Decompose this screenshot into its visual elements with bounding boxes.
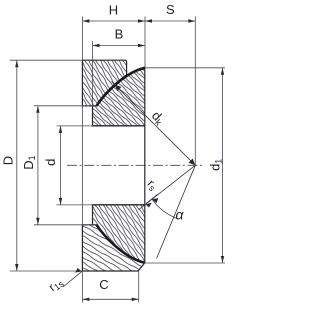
ext H right / B right / S left vertical — [144, 17, 146, 68]
housing washer bottom section — [82, 225, 144, 271]
dimension d1 line — [221, 68, 224, 263]
svg-text:B: B — [115, 27, 124, 42]
ext d1 bottom horizontal — [144, 262, 226, 264]
sphere contact arc bottom (thick) — [97, 225, 145, 263]
shaft washer top section — [93, 68, 145, 126]
dimension D1 line — [36, 106, 39, 225]
svg-text:D: D — [1, 156, 16, 165]
dimension B line — [93, 44, 146, 47]
ext d top horizontal — [57, 125, 93, 127]
rs leader arrow — [145, 194, 157, 207]
dimension H line — [82, 19, 145, 22]
svg-text:S: S — [166, 2, 175, 17]
ext D1 top horizontal — [34, 105, 97, 107]
svg-text:C: C — [99, 277, 108, 292]
ext D bottom horizontal — [10, 270, 83, 272]
alpha angle arc with arrow — [152, 198, 177, 218]
dimension D line — [15, 60, 18, 271]
shaft washer bottom section — [93, 205, 145, 263]
ext d bottom horizontal — [57, 204, 93, 206]
ext H left / C left vertical — [81, 17, 83, 61]
svg-text:α: α — [176, 207, 185, 223]
svg-text:r1s: r1s — [46, 274, 66, 294]
ext D top horizontal — [10, 59, 83, 61]
sphere contact arc top (thick) — [97, 68, 145, 106]
svg-text:dk: dk — [148, 108, 168, 128]
ext D1 bottom horizontal — [34, 224, 97, 226]
dimension d line — [59, 126, 62, 205]
dimension C line — [82, 298, 138, 301]
svg-text:rs: rs — [144, 177, 161, 194]
alpha angle line B — [157, 165, 196, 258]
alpha angle line A (to bore corner) — [139, 165, 196, 210]
ext B left vertical — [92, 41, 94, 106]
svg-text:d: d — [43, 159, 58, 166]
svg-text:d1: d1 — [207, 159, 223, 171]
dk diameter leader line — [112, 82, 196, 166]
svg-text:H: H — [109, 3, 118, 18]
bore rectangle outline — [93, 126, 145, 205]
ext C right vertical — [138, 271, 140, 303]
ext d1 top horizontal — [145, 67, 225, 69]
dimension S line — [145, 19, 195, 22]
housing washer top section — [82, 60, 126, 106]
svg-text:D1: D1 — [21, 155, 37, 169]
centerline axis — [67, 164, 202, 166]
r1s leader arrow — [63, 268, 82, 287]
ext S right vertical to sphere centre — [194, 17, 196, 166]
extension lines — [10, 17, 225, 303]
